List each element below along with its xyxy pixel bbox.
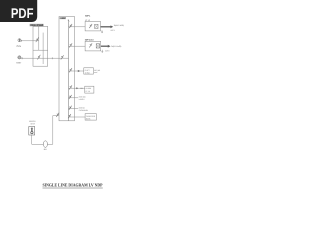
svg-text:GENSET: GENSET (16, 61, 21, 64)
kwh meter box SDP-2 (96, 44, 99, 48)
node tick at PLN wire (21, 40, 23, 42)
ATS internal divider (33, 49, 48, 51)
load box row3 (84, 68, 94, 74)
svg-text:SINGLE LINE DIAGRAM LV NDP: SINGLE LINE DIAGRAM LV NDP (43, 183, 103, 188)
arrowhead row2 (108, 45, 111, 48)
branch row 7 wire to capacitor bank (69, 116, 86, 118)
breaker row4 at bus (69, 85, 72, 89)
feeder cable row2 (101, 45, 108, 47)
feeder cable row1 (101, 26, 111, 28)
breaker Q1 PLN incoming (36, 37, 39, 42)
arrowhead row1 (111, 25, 114, 28)
svg-text:10A: 10A (80, 87, 84, 90)
svg-text:2x(NYY 4x35): 2x(NYY 4x35) (114, 24, 124, 27)
breaker row2 at bus (69, 43, 72, 47)
sub panel SDP-2 box (85, 41, 101, 51)
genset source circle G (18, 56, 21, 59)
title underline (43, 187, 103, 189)
sub panel SDP-1 box (85, 21, 100, 31)
breaker row7 at bus (68, 114, 71, 118)
branch row 6 wire (69, 108, 79, 110)
label LVMDP (60, 17, 66, 19)
svg-text:LAMPU: LAMPU (79, 98, 85, 101)
branch row 2 wire to SDP-2 (69, 45, 86, 47)
label PANEL ATS-AMF (30, 24, 44, 27)
utility source meter circle PLN (18, 39, 21, 42)
breaker row3 at bus (69, 68, 72, 72)
meter internals (31, 128, 33, 132)
wire genset through ATS panel to LVMDP bus (21, 57, 69, 59)
breaker main incoming on wire (61, 55, 64, 59)
svg-text:PDF: PDF (11, 5, 34, 21)
node tick on incoming wire (51, 57, 53, 59)
breaker left exit (56, 113, 59, 117)
svg-text:LVMDP: LVMDP (60, 17, 66, 20)
arrowhead row3 mid wire (78, 70, 80, 72)
branch row 1 wire to SDP-1 (69, 26, 86, 28)
load box row4 (85, 86, 94, 93)
svg-text:mm²: mm² (94, 71, 98, 74)
svg-text:PLN: PLN (17, 45, 22, 48)
breaker inside SDP-2 (89, 43, 92, 47)
capacitor bank box (85, 114, 96, 120)
arrowhead row4 mid wire (76, 87, 78, 89)
svg-text:METER: METER (31, 122, 36, 125)
svg-text:SDP 2: SDP 2 (105, 50, 110, 53)
ATS internal riser wire 1 (38, 26, 40, 50)
svg-text:A. KWH: A. KWH (86, 87, 92, 90)
ground symbol below SDP-1 (101, 30, 103, 33)
breaker row6 at bus (69, 106, 72, 110)
kwh meter box lower left (29, 127, 35, 136)
svg-text:CADANGAN: CADANGAN (79, 109, 89, 112)
main bus LVMDP (68, 19, 70, 120)
branch row 3 wire (69, 70, 84, 72)
breaker Q2 genset incoming (38, 55, 41, 60)
svg-text:2x(NYY 4x25): 2x(NYY 4x25) (111, 45, 121, 48)
svg-text:PANEL ATS/AMF: PANEL ATS/AMF (31, 24, 44, 27)
ground symbol below SDP-2 (101, 50, 103, 53)
wire PLN to ATS panel (21, 40, 39, 42)
node tick genset wire (21, 57, 23, 59)
breaker row5 at bus (69, 95, 72, 99)
panel LVMDP column box (59, 17, 75, 121)
svg-text:SDP-1: SDP-1 (85, 15, 91, 18)
branch row 4 wire (69, 87, 85, 89)
node tick at bus top (68, 20, 70, 21)
svg-text:SDP 1: SDP 1 (110, 29, 115, 32)
fuse oval on wire (43, 141, 47, 148)
breaker row1 at bus (69, 24, 72, 28)
ATS internal riser wire 2 (42, 33, 44, 64)
branch row 5 wire (69, 97, 79, 99)
svg-text:NH: NH (44, 148, 47, 151)
svg-text:LT. 1-3: LT. 1-3 (86, 90, 90, 93)
PDF badge (0, 0, 37, 22)
left exit wire from LVMDP (32, 116, 59, 145)
svg-text:SDP-2 LT.3: SDP-2 LT.3 (85, 38, 95, 41)
kwh meter box SDP-1 (95, 24, 98, 28)
panel ATS-AMF box (33, 26, 48, 66)
breaker inside SDP-1 (89, 24, 92, 28)
